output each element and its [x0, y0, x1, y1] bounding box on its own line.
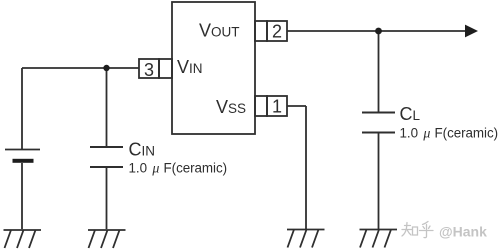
svg-text:2: 2 — [272, 22, 282, 42]
svg-text:1: 1 — [272, 97, 282, 117]
svg-text:3: 3 — [144, 60, 154, 80]
svg-text:1.0μF(ceramic): 1.0μF(ceramic) — [129, 161, 228, 177]
svg-text:@Hank: @Hank — [439, 224, 487, 240]
svg-text:1.0μF(ceramic): 1.0μF(ceramic) — [400, 126, 499, 142]
